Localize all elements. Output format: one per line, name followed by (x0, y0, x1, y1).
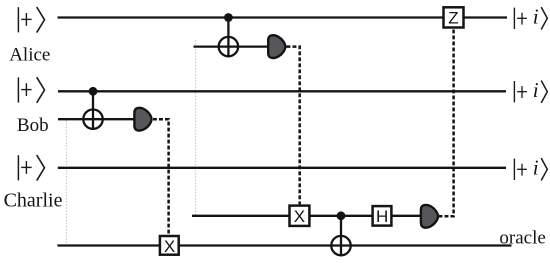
svg-text:X: X (294, 207, 305, 226)
svg-text:Charlie: Charlie (4, 189, 63, 211)
svg-text:oracle: oracle (499, 228, 545, 249)
svg-text:Bob: Bob (17, 115, 49, 136)
svg-text:Alice: Alice (9, 44, 50, 65)
svg-text:H: H (376, 207, 388, 226)
svg-text:Z: Z (448, 9, 458, 28)
svg-text:X: X (164, 237, 175, 256)
